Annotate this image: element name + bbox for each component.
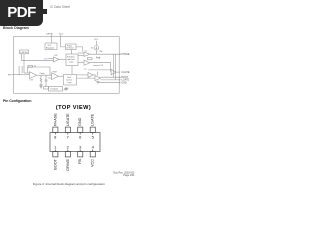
driver transistor lower	[95, 76, 100, 81]
feedback network line	[28, 67, 50, 75]
box Oscillator	[49, 87, 63, 92]
pin 4 pad	[90, 152, 95, 157]
svg-text:PHASE: PHASE	[121, 53, 130, 56]
svg-text:PHASE: PHASE	[53, 113, 57, 126]
svg-text:VCC: VCC	[59, 34, 64, 36]
arrow symbol	[96, 57, 100, 59]
svg-text:Page 2/11: Page 2/11	[123, 174, 135, 177]
pin 7 pad	[65, 127, 70, 132]
wire compB out	[90, 63, 111, 72]
wire soft start to comparators	[78, 52, 84, 54]
svg-text:0.9V Ref: 0.9V Ref	[20, 52, 28, 54]
pin tick DRIVE	[50, 35, 52, 37]
wire bootstrap B	[115, 54, 117, 80]
svg-text:1.5 V: 1.5 V	[44, 58, 50, 60]
wire OVP out	[59, 58, 66, 60]
ground driver	[96, 82, 99, 84]
wire VCC rail	[61, 37, 66, 47]
svg-text:BOOT: BOOT	[53, 158, 57, 169]
wire bootstrap A	[112, 54, 114, 77]
PDF badge tab	[42, 9, 47, 14]
PDF badge text	[0, 5, 43, 20]
box Power On Reset	[66, 44, 77, 50]
current source circle	[94, 45, 99, 50]
svg-text:64: 64	[91, 47, 93, 49]
capacitor C2	[45, 75, 47, 80]
wire PWM out	[59, 75, 64, 77]
comparator B	[84, 60, 90, 65]
comparator OVP	[54, 57, 60, 62]
svg-text:Logic: Logic	[67, 82, 71, 84]
svg-text:(TOP VIEW): (TOP VIEW)	[56, 105, 91, 111]
wire POR to soft-start	[71, 50, 73, 55]
svg-text:vcc: vcc	[84, 69, 87, 71]
wire POR out right	[76, 47, 83, 52]
pin BOOT stub	[119, 76, 121, 78]
svg-text:20k: 20k	[99, 51, 102, 53]
svg-text:UGATE: UGATE	[121, 71, 129, 74]
pin tick VCC	[60, 35, 62, 37]
pin FB stub	[12, 74, 14, 76]
schematic group	[8, 34, 130, 94]
svg-text:Comp: Comp	[40, 73, 45, 75]
wire OVP minus input	[22, 60, 54, 62]
op-amp error amplifier	[30, 72, 37, 79]
svg-text:Oscillator: Oscillator	[50, 88, 58, 91]
svg-text:VCC: VCC	[91, 159, 95, 167]
svg-text:IC Data Sheet: IC Data Sheet	[50, 5, 70, 9]
wire LGATE	[100, 79, 119, 81]
comparator PWM	[52, 73, 59, 80]
svg-text:DRIVE: DRIVE	[46, 34, 53, 36]
svg-text:DRIVE: DRIVE	[66, 159, 70, 171]
svg-text:Figure 2: Internal block diagr: Figure 2: Internal block diagram and pin…	[33, 182, 105, 186]
box Soft-Start and Fault Logic	[66, 54, 78, 66]
box reference	[20, 50, 29, 54]
svg-text:Z2: Z2	[34, 66, 36, 68]
pin UGATE stub	[116, 71, 120, 73]
svg-text:VCC: VCC	[94, 39, 99, 41]
pin ticks top	[55, 133, 92, 135]
pin arrowheads	[119, 53, 121, 83]
wire ref down	[23, 54, 25, 73]
pin 5 pad	[90, 127, 95, 132]
buffer UGATE	[111, 69, 116, 74]
box Gate Control Logic	[64, 75, 77, 86]
sawtooth symbol	[64, 88, 69, 90]
svg-text:Block Diagram: Block Diagram	[3, 26, 30, 30]
pin 8 pad	[53, 127, 58, 132]
wire EA out	[37, 74, 52, 76]
ground comp	[39, 87, 42, 89]
svg-text:LGATE: LGATE	[91, 113, 95, 126]
svg-text:GND: GND	[121, 82, 127, 85]
feedback small box	[28, 65, 33, 67]
pin 2 pad	[65, 152, 70, 157]
wire softstart to GCL	[71, 66, 73, 75]
svg-text:On Reset: On Reset	[66, 47, 74, 50]
wire GND	[99, 82, 119, 84]
small box tss	[43, 87, 48, 89]
wire source to phase line	[95, 50, 97, 54]
wire VCC-reg drop	[50, 37, 52, 44]
pin 3 pad	[78, 152, 83, 157]
svg-text:Regulator: Regulator	[46, 46, 55, 49]
svg-text:Pin Configuration: Pin Configuration	[3, 99, 31, 103]
capacitor compensation	[40, 83, 43, 85]
wire ramp input	[48, 77, 52, 79]
page background	[0, 0, 149, 198]
PDF badge	[0, 0, 43, 26]
package group	[50, 113, 100, 171]
svg-text:PWM: PWM	[53, 71, 58, 73]
driver transistor upper	[88, 72, 93, 77]
wire gate node	[97, 72, 99, 76]
resistor compensation	[40, 75, 42, 84]
box VCC Regulator	[45, 43, 57, 50]
wire ref branch	[21, 54, 23, 61]
wire VCC drop	[95, 41, 97, 46]
pin 1 pad	[53, 152, 58, 157]
package body	[50, 133, 100, 152]
schematic border	[14, 37, 120, 94]
wire EA plus input	[24, 72, 30, 74]
small box delay	[88, 58, 93, 60]
wire PHASE line	[90, 53, 120, 55]
wire FB to error amp	[14, 74, 30, 76]
wire BOOT	[100, 76, 119, 78]
svg-text:GND: GND	[78, 117, 82, 126]
pin PHASE stub	[119, 53, 121, 55]
svg-text:FB: FB	[78, 159, 82, 164]
svg-text:UGATE: UGATE	[66, 113, 70, 126]
wire to buffer	[88, 69, 111, 71]
comparator A	[84, 52, 90, 57]
svg-text:Logic: Logic	[69, 62, 73, 64]
pin ticks bottom	[55, 150, 92, 152]
pin 6 pad	[78, 127, 83, 132]
wire fb verticals	[18, 66, 20, 75]
